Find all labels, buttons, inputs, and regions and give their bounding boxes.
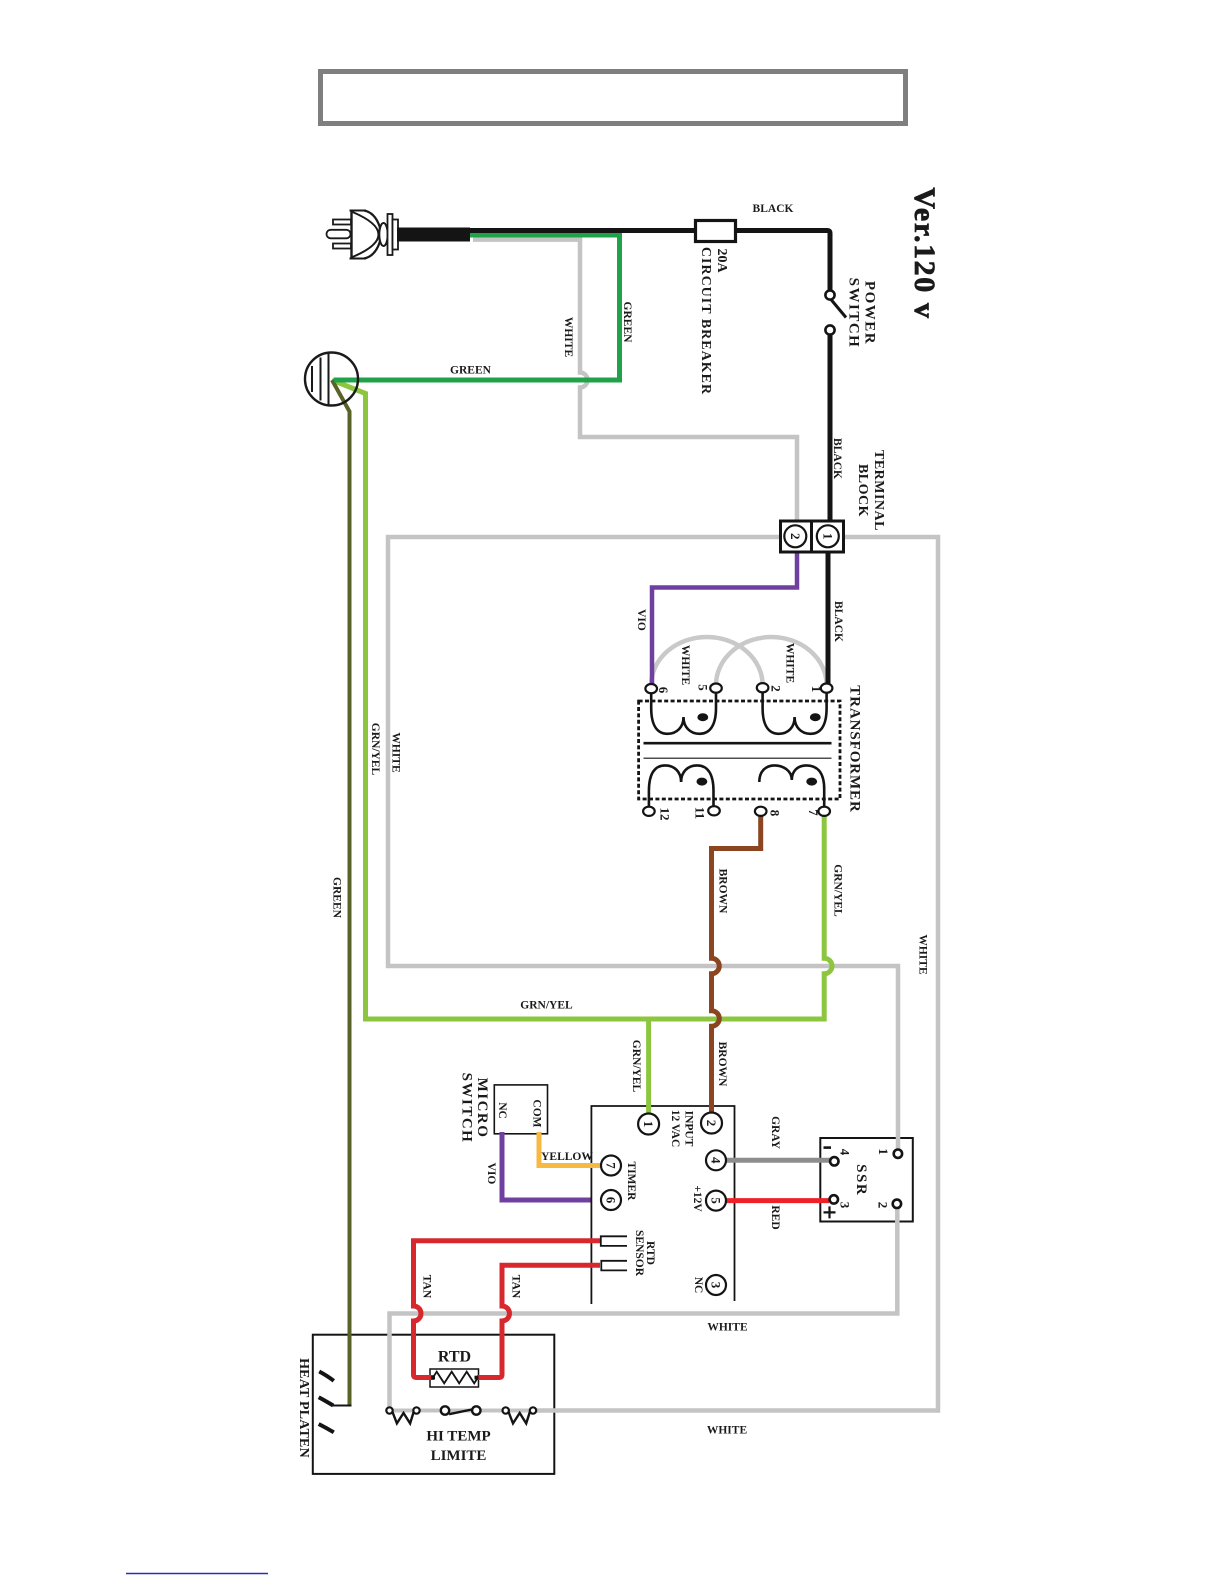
hyperlink underline bbox=[126, 1573, 268, 1575]
SSR pin 1 bbox=[894, 1150, 902, 1158]
RTD sensor connector 1 bbox=[601, 1236, 627, 1246]
svg-text:GREEN: GREEN bbox=[450, 365, 492, 377]
svg-text:1: 1 bbox=[820, 533, 835, 540]
svg-text:BROWN: BROWN bbox=[716, 1042, 728, 1087]
svg-text:Ver.120 v: Ver.120 v bbox=[908, 187, 941, 319]
primary winding 6-5 bbox=[651, 691, 716, 734]
svg-text:MICRO: MICRO bbox=[474, 1078, 490, 1139]
svg-text:4: 4 bbox=[838, 1149, 853, 1156]
RTD sensor connector 2 bbox=[601, 1261, 627, 1271]
svg-text:BROWN: BROWN bbox=[717, 869, 729, 914]
svg-text:2: 2 bbox=[876, 1202, 891, 1209]
svg-text:5: 5 bbox=[709, 1197, 724, 1204]
power cord bbox=[397, 228, 470, 242]
controller pin 1 bbox=[638, 1114, 659, 1135]
wire black terminal block 1 to transformer 1 bbox=[826, 552, 831, 684]
transformer pin 7 bbox=[818, 807, 830, 816]
terminal block TB1 bbox=[781, 521, 844, 552]
ground point node bbox=[305, 353, 358, 406]
wire gray controller 4 to SSR 4 bbox=[727, 1158, 831, 1163]
svg-text:BLOCK: BLOCK bbox=[855, 464, 870, 517]
jumper white transformer 5 to 1 bbox=[716, 637, 827, 685]
wire yellow micro switch COM to controller 7 bbox=[539, 1132, 600, 1166]
transformer pin 8 bbox=[755, 807, 767, 816]
svg-text:COM: COM bbox=[530, 1099, 542, 1127]
svg-text:+12V: +12V bbox=[691, 1185, 703, 1212]
svg-text:GRN/YEL: GRN/YEL bbox=[630, 1040, 642, 1093]
switch blade bbox=[449, 1409, 474, 1414]
thermal element 1 bbox=[392, 1412, 414, 1424]
polarity dot bbox=[806, 778, 817, 786]
svg-text:WHITE: WHITE bbox=[707, 1425, 748, 1437]
secondary winding 8-7 bbox=[759, 765, 824, 808]
svg-text:POWER: POWER bbox=[862, 281, 878, 345]
svg-text:6: 6 bbox=[604, 1197, 619, 1204]
svg-text:2: 2 bbox=[704, 1120, 719, 1127]
wire brown transformer 8 to controller 2 bbox=[712, 813, 761, 1113]
svg-text:RED: RED bbox=[769, 1205, 781, 1229]
wire tan RTD sensor 1 to RTD bbox=[414, 1241, 601, 1378]
svg-text:8: 8 bbox=[768, 810, 783, 817]
transformer T1 bbox=[639, 683, 840, 820]
title box bbox=[321, 72, 906, 124]
wire black circuit breaker to power switch bbox=[736, 231, 830, 291]
svg-text:SWITCH: SWITCH bbox=[459, 1073, 475, 1144]
svg-text:YELLOW: YELLOW bbox=[541, 1151, 593, 1163]
svg-text:CIRCUIT BREAKER: CIRCUIT BREAKER bbox=[698, 247, 713, 395]
wire white hi-temp limit internal bbox=[390, 1409, 534, 1413]
wire green (olive) ground point to heat platen bbox=[332, 380, 350, 1405]
svg-text:TAN: TAN bbox=[421, 1275, 433, 1299]
svg-text:VIO: VIO bbox=[635, 609, 647, 631]
svg-text:HI TEMP: HI TEMP bbox=[426, 1429, 490, 1445]
svg-text:GRN/YEL: GRN/YEL bbox=[520, 1000, 573, 1012]
heater wire stub bbox=[333, 1405, 352, 1407]
solid state relay SSR bbox=[824, 1148, 903, 1219]
transformer pin 12 bbox=[643, 807, 655, 816]
svg-text:WHITE: WHITE bbox=[390, 732, 402, 773]
wire grn/yel drop to controller terminal 1 bbox=[646, 1019, 651, 1113]
SSR pin 2 bbox=[893, 1200, 901, 1208]
svg-text:WHITE: WHITE bbox=[784, 643, 796, 684]
svg-text:WHITE: WHITE bbox=[562, 317, 574, 358]
svg-text:GRAY: GRAY bbox=[769, 1116, 781, 1149]
wire violet terminal block 2 to transformer 6 bbox=[652, 552, 797, 684]
svg-text:TRANSFORMER: TRANSFORMER bbox=[847, 685, 863, 812]
svg-text:1: 1 bbox=[641, 1121, 656, 1128]
SSR plus sign bbox=[824, 1206, 836, 1218]
svg-text:3: 3 bbox=[709, 1282, 724, 1289]
wire red controller 5 to SSR 3 bbox=[727, 1198, 830, 1203]
svg-text:TERMINAL: TERMINAL bbox=[871, 450, 886, 531]
SSR pin 3 bbox=[830, 1195, 838, 1203]
svg-text:TIMER: TIMER bbox=[625, 1162, 637, 1202]
svg-text:BLACK: BLACK bbox=[831, 438, 843, 479]
controller pin 7 bbox=[601, 1156, 621, 1176]
power plug P1 bbox=[327, 211, 399, 259]
polarity dot bbox=[697, 713, 708, 721]
controller pin 2 bbox=[701, 1113, 722, 1134]
svg-text:2: 2 bbox=[769, 685, 784, 692]
svg-text:2: 2 bbox=[788, 533, 803, 540]
SSR minus sign bbox=[824, 1146, 832, 1149]
wire tan RTD sensor 2 to RTD bbox=[477, 1265, 600, 1377]
controller pin 3 bbox=[706, 1275, 726, 1295]
transformer pin 5 bbox=[710, 684, 722, 693]
heater element stroke 2 bbox=[319, 1397, 334, 1405]
svg-text:3: 3 bbox=[838, 1202, 853, 1209]
polarity dot bbox=[697, 778, 708, 786]
svg-text:1: 1 bbox=[876, 1148, 891, 1155]
temperature controller U1 bbox=[601, 1113, 726, 1296]
svg-text:LIMITE: LIMITE bbox=[431, 1448, 487, 1464]
svg-text:GREEN: GREEN bbox=[621, 302, 633, 344]
transformer core bbox=[644, 742, 832, 745]
svg-text:WHITE: WHITE bbox=[707, 1322, 748, 1334]
svg-text:GRN/YEL: GRN/YEL bbox=[832, 864, 844, 917]
power switch S1 bbox=[825, 290, 846, 334]
svg-text:20A: 20A bbox=[714, 248, 729, 273]
svg-text:GRN/YEL: GRN/YEL bbox=[369, 723, 381, 776]
svg-text:BLACK: BLACK bbox=[753, 203, 794, 215]
svg-text:GREEN: GREEN bbox=[331, 877, 343, 919]
svg-text:12: 12 bbox=[658, 808, 673, 821]
wire black power switch to terminal block 1 bbox=[828, 335, 833, 522]
heat platen assembly bbox=[319, 1372, 352, 1433]
jumper white transformer 6 to 2 bbox=[651, 637, 762, 685]
wire white from plug to terminal block 2 bbox=[473, 240, 797, 521]
controller pin 5 bbox=[706, 1191, 726, 1211]
wire white terminal block 1 to right vertical bbox=[533, 537, 938, 1411]
controller pin 6 bbox=[601, 1190, 621, 1210]
thermal element 2 bbox=[508, 1412, 530, 1424]
wire black plug to circuit breaker bbox=[462, 228, 695, 233]
svg-text:12 VAC: 12 VAC bbox=[669, 1110, 681, 1148]
svg-text:1: 1 bbox=[809, 686, 824, 693]
svg-text:4: 4 bbox=[709, 1157, 724, 1164]
SSR pin 4 bbox=[830, 1157, 838, 1165]
controller pin 4 bbox=[706, 1150, 726, 1170]
svg-text:NC: NC bbox=[496, 1102, 508, 1119]
svg-text:7: 7 bbox=[806, 809, 821, 816]
component outlines underlayer bbox=[313, 1085, 913, 1474]
svg-text:5: 5 bbox=[696, 684, 711, 691]
circuit breaker CB1 20A bbox=[696, 221, 736, 242]
svg-text:INPUT: INPUT bbox=[682, 1111, 694, 1147]
wire green plug to ground point bbox=[334, 235, 620, 380]
svg-text:HEAT PLATEN: HEAT PLATEN bbox=[296, 1358, 311, 1458]
secondary winding 12-11 bbox=[649, 765, 714, 808]
svg-text:SENSOR: SENSOR bbox=[633, 1230, 645, 1277]
svg-text:RTD: RTD bbox=[438, 1349, 471, 1366]
wire white from SSR 2 to hi-temp limit bbox=[390, 1206, 898, 1408]
svg-text:WHITE: WHITE bbox=[679, 645, 691, 686]
svg-text:11: 11 bbox=[693, 807, 708, 819]
wire white terminal block 2 to left vertical bbox=[388, 537, 898, 1151]
transformer pin 11 bbox=[708, 806, 720, 815]
heater element stroke 1 bbox=[319, 1372, 334, 1381]
micro switch S2 bbox=[496, 1099, 542, 1127]
svg-text:VIO: VIO bbox=[485, 1163, 497, 1185]
heater element stroke 3 bbox=[319, 1424, 334, 1432]
primary winding 2-1 bbox=[763, 691, 827, 734]
svg-text:TAN: TAN bbox=[510, 1275, 522, 1299]
transformer pin 2 bbox=[757, 683, 769, 692]
svg-text:BLACK: BLACK bbox=[832, 601, 844, 642]
transformer pin 6 bbox=[645, 684, 657, 693]
transformer pin 1 bbox=[821, 684, 833, 693]
svg-text:7: 7 bbox=[604, 1162, 619, 1169]
svg-text:WHITE: WHITE bbox=[917, 934, 929, 975]
RTD element bbox=[431, 1372, 478, 1384]
svg-text:NC: NC bbox=[692, 1277, 704, 1294]
hi temp limit switch S3 bbox=[386, 1406, 536, 1423]
wire violet micro switch NC to controller 6 bbox=[502, 1132, 591, 1200]
svg-text:SSR: SSR bbox=[853, 1164, 869, 1196]
polarity dot bbox=[810, 713, 821, 721]
svg-text:SWITCH: SWITCH bbox=[846, 278, 862, 349]
transformer dashed body bbox=[639, 701, 840, 799]
svg-text:6: 6 bbox=[656, 687, 671, 694]
wire grn/yel ground point to controller 1 and transformer 7 bbox=[332, 380, 832, 1019]
